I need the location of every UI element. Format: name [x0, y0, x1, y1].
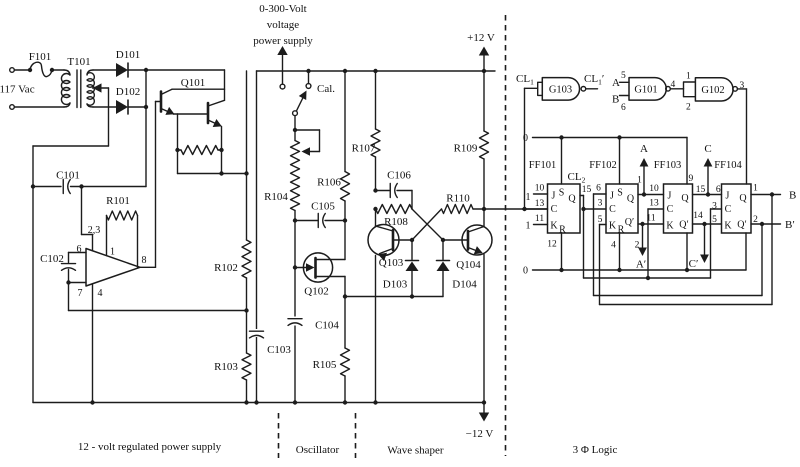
- svg-text:K: K: [550, 221, 558, 232]
- T101 center tap wire: [93, 83, 102, 92]
- node rectifier+ junction: [144, 68, 148, 72]
- fuse F101: [28, 68, 32, 72]
- rail logic0 top: [533, 137, 688, 139]
- svg-text:6: 6: [716, 185, 721, 195]
- FF101 Q out: [580, 195, 584, 197]
- wire emitter1 down: [177, 114, 179, 150]
- FF103 Qp out: [693, 223, 722, 225]
- wire rectifier vertical: [145, 70, 147, 187]
- svg-text:D102: D102: [116, 86, 140, 98]
- wire top rail to Q101: [146, 69, 225, 71]
- svg-text:R104: R104: [264, 191, 288, 203]
- diode D102: [116, 100, 128, 114]
- wire Q101 base link: [174, 113, 209, 115]
- svg-text:9: 9: [689, 174, 694, 184]
- svg-text:Q: Q: [739, 193, 747, 204]
- svg-text:3: 3: [598, 199, 603, 209]
- node R108 left: [373, 207, 377, 211]
- wire R107 bottom: [375, 157, 377, 191]
- svg-text:A: A: [612, 77, 620, 89]
- svg-text:J: J: [726, 191, 730, 202]
- wire G102 out: [737, 88, 746, 90]
- capacitor C104: [287, 317, 302, 326]
- resistor R106: [341, 172, 350, 202]
- svg-text:−12 V: −12 V: [466, 428, 494, 440]
- separator dashed mid: [355, 413, 357, 458]
- svg-text:G101: G101: [634, 85, 657, 96]
- cross diag 1: [412, 209, 443, 240]
- svg-text:10: 10: [535, 184, 545, 194]
- wire R103 top: [246, 311, 248, 353]
- svg-text:Q: Q: [568, 194, 576, 205]
- node C105 left: [293, 218, 297, 222]
- svg-text:Q′: Q′: [737, 220, 746, 231]
- Q104 emitter down: [483, 255, 485, 403]
- svg-text:R106: R106: [317, 177, 341, 189]
- wire R102 top: [246, 174, 248, 241]
- wire C103 branch: [256, 71, 258, 403]
- svg-text:1: 1: [526, 221, 531, 232]
- Q103 collector diag: [376, 226, 394, 231]
- svg-text:R103: R103: [214, 361, 238, 373]
- svg-text:C: C: [667, 204, 674, 215]
- flip-flop FF102 box: [606, 184, 638, 233]
- Q102 gate arrow: [295, 267, 306, 269]
- gate G101 bubble: [666, 87, 671, 92]
- wire pin6: [69, 252, 87, 254]
- wire D101 cathode: [128, 69, 146, 71]
- wire FF103 S: [686, 138, 688, 185]
- transformer T101 core: [76, 70, 78, 108]
- Q104 base wire: [443, 239, 468, 241]
- svg-text:3: 3: [712, 202, 717, 212]
- diode D104: [442, 240, 444, 260]
- wire R106 top: [343, 69, 347, 73]
- wire res stubs: [178, 149, 182, 151]
- node +12 feed: [246, 71, 248, 174]
- wire emitter2 down: [221, 126, 223, 173]
- svg-text:12 - volt regulated power supp: 12 - volt regulated power supply: [78, 441, 222, 453]
- svg-text:0-300-Volt: 0-300-Volt: [259, 3, 306, 15]
- Q102 source lead: [316, 276, 346, 278]
- svg-text:C104: C104: [315, 320, 339, 332]
- svg-text:Wave shaper: Wave shaper: [387, 445, 444, 457]
- svg-text:R109: R109: [454, 143, 478, 155]
- Q103 emitter diag: [380, 249, 394, 254]
- svg-text:K: K: [724, 221, 732, 232]
- svg-text:C′: C′: [689, 258, 699, 270]
- svg-text:C: C: [551, 204, 558, 215]
- svg-text:R: R: [559, 225, 566, 236]
- svg-text:Oscillator: Oscillator: [296, 444, 340, 456]
- svg-text:R102: R102: [214, 262, 238, 274]
- wire A in: [620, 81, 630, 83]
- wire R104 bottom: [294, 211, 296, 221]
- svg-text:B′: B′: [785, 219, 795, 231]
- wire left vertical: [32, 146, 34, 403]
- node D103 bottom: [410, 294, 414, 298]
- svg-text:12: 12: [547, 240, 557, 250]
- wire FF102 S: [617, 135, 621, 139]
- svg-text:voltage: voltage: [267, 19, 299, 31]
- svg-text:1: 1: [637, 176, 642, 186]
- FF101 K stub: [534, 224, 548, 226]
- Q104 emitter diag: [468, 248, 481, 253]
- svg-text:C102: C102: [40, 253, 64, 265]
- gate G101: [629, 78, 666, 101]
- svg-text:R: R: [618, 225, 625, 236]
- wire FF101 S: [559, 135, 563, 139]
- transformer T101 primary: [64, 70, 70, 75]
- svg-text:FF103: FF103: [654, 160, 681, 171]
- FF104 Qp out: [751, 223, 781, 225]
- wire q101 bottom: [177, 150, 179, 174]
- svg-text:C106: C106: [387, 170, 411, 182]
- bus B' to J: [594, 295, 763, 297]
- svg-text:6: 6: [77, 244, 82, 255]
- svg-text:CL1′: CL1′: [584, 73, 604, 87]
- wire R102 bottom: [246, 278, 248, 311]
- svg-text:S: S: [559, 188, 565, 199]
- arrow A: [643, 160, 645, 195]
- Q103 base wire: [393, 239, 412, 241]
- transistor Q102: [303, 253, 332, 282]
- wire D102 anode: [93, 106, 116, 108]
- resistor R108: [376, 205, 413, 214]
- svg-text:7: 7: [78, 288, 83, 299]
- gate G103 bubble: [581, 87, 586, 92]
- terminal 117 Vac bottom: [10, 105, 15, 110]
- svg-text:13: 13: [649, 199, 659, 209]
- resistor R105: [341, 348, 350, 376]
- wire source right: [345, 296, 412, 298]
- diode D103: [411, 240, 413, 260]
- FF101 C wire: [523, 208, 548, 210]
- separator dashed left: [278, 413, 280, 458]
- wire D101 anode: [93, 69, 116, 71]
- ground rail bottom: [33, 402, 484, 404]
- wire R106 bottom: [344, 201, 346, 260]
- FF103 Q out: [693, 194, 722, 196]
- svg-text:4: 4: [98, 288, 103, 299]
- svg-text:C103: C103: [267, 344, 291, 356]
- wire pin4: [92, 284, 94, 403]
- svg-text:11: 11: [535, 214, 544, 224]
- svg-text:Q102: Q102: [304, 286, 328, 298]
- resistor R101: [107, 211, 138, 220]
- resistor R110: [442, 205, 474, 214]
- svg-text:K: K: [666, 221, 674, 232]
- wire pin8 out: [140, 266, 156, 268]
- svg-text:Q′: Q′: [625, 217, 634, 228]
- wire CL1 to logic: [484, 208, 548, 210]
- wire Q101 base down: [155, 102, 157, 268]
- node X right: [441, 238, 445, 242]
- svg-text:1: 1: [110, 247, 115, 258]
- FF101 R wire: [561, 233, 563, 270]
- svg-text:R110: R110: [446, 193, 470, 205]
- FF102 J feedback: [593, 194, 595, 296]
- wire C101 left: [33, 186, 61, 188]
- svg-text:Cal.: Cal.: [317, 83, 335, 95]
- wire R110 right: [473, 208, 484, 210]
- svg-text:10: 10: [649, 184, 659, 194]
- FF104 R wire: [745, 233, 747, 270]
- FF104 Q out: [751, 194, 781, 196]
- svg-text:B: B: [789, 190, 796, 202]
- svg-text:5: 5: [598, 215, 603, 225]
- svg-text:A′: A′: [636, 259, 646, 271]
- gate G103: [542, 78, 579, 101]
- FF102 K feedback: [599, 225, 601, 305]
- wire R101 right: [137, 216, 139, 268]
- gate G102 bubble: [733, 87, 738, 92]
- svg-text:Q: Q: [681, 193, 689, 204]
- FF103 R wire: [686, 233, 688, 270]
- wire C104 line: [294, 221, 296, 403]
- svg-text:1: 1: [753, 184, 758, 194]
- wire R109 bottom: [483, 159, 485, 209]
- gate G103 input stub: [538, 82, 543, 95]
- svg-text:D104: D104: [452, 279, 477, 291]
- resistor Q101 emitter: [181, 146, 218, 155]
- svg-text:G102: G102: [701, 85, 724, 96]
- wire G103 out: [586, 88, 598, 90]
- Q102 drain lead: [316, 259, 346, 261]
- svg-text:Q101: Q101: [181, 77, 205, 89]
- capacitor C101: [62, 180, 64, 194]
- svg-text:3: 3: [740, 81, 745, 91]
- flip-flop FF104 box: [722, 184, 752, 233]
- wire B in: [620, 95, 630, 97]
- wire pin7: [69, 282, 87, 284]
- op-amp U101: [86, 249, 140, 287]
- cross diag 2: [412, 209, 442, 240]
- gate G102 input stub: [684, 82, 696, 97]
- wire R105 top: [344, 297, 346, 349]
- svg-text:2: 2: [635, 241, 640, 251]
- switch terminal left: [280, 84, 285, 89]
- resistor R102: [242, 240, 251, 278]
- +12V rail: [257, 70, 496, 72]
- bus B to K: [600, 304, 773, 306]
- Q103 emitter down: [375, 256, 377, 403]
- terminal 117 Vac top: [10, 68, 15, 73]
- FF103 C wire: [648, 208, 664, 210]
- svg-text:R105: R105: [313, 359, 337, 371]
- transistor Q101 second: [207, 103, 210, 123]
- supply arrow 0-300V: [282, 48, 284, 84]
- svg-text:1: 1: [526, 192, 531, 203]
- capacitor C106: [376, 190, 391, 192]
- FF102 Qp out: [638, 223, 664, 225]
- svg-text:2: 2: [686, 103, 691, 113]
- svg-text:FF104: FF104: [714, 160, 742, 171]
- svg-text:Q103: Q103: [379, 257, 404, 269]
- node C106 left: [373, 188, 377, 192]
- node Q102 source: [343, 294, 347, 298]
- wire pot top: [294, 130, 296, 141]
- svg-text:D101: D101: [116, 49, 140, 61]
- wire D102 cathode: [128, 106, 146, 108]
- svg-text:+12 V: +12 V: [467, 32, 495, 44]
- svg-text:D103: D103: [383, 279, 408, 291]
- +12V arrow: [483, 49, 485, 71]
- node pot top: [293, 128, 297, 132]
- svg-text:3 Φ Logic: 3 Φ Logic: [573, 444, 618, 456]
- svg-text:4: 4: [611, 241, 616, 251]
- arrow Cp: [704, 224, 706, 260]
- svg-text:F101: F101: [29, 51, 52, 63]
- svg-text:T101: T101: [67, 56, 90, 68]
- wire CL1 up: [522, 207, 526, 211]
- wire R109 top: [482, 69, 486, 73]
- bus CL2 feedback: [583, 209, 585, 278]
- node res left: [175, 148, 179, 152]
- svg-text:C: C: [609, 204, 616, 215]
- svg-text:FF102: FF102: [589, 160, 616, 171]
- FF102 R wire: [619, 233, 621, 270]
- resistor R109: [480, 131, 489, 159]
- node X left: [410, 238, 414, 242]
- switch terminal right: [306, 84, 311, 89]
- transistor Q101 second emitter: [208, 120, 221, 126]
- separator dashed logic: [505, 15, 507, 456]
- capacitor C102: [68, 253, 70, 263]
- svg-text:Q: Q: [627, 194, 635, 205]
- svg-text:5: 5: [621, 71, 626, 81]
- svg-text:C: C: [704, 143, 711, 155]
- svg-text:0: 0: [523, 133, 528, 144]
- flip-flop FF103 box: [664, 184, 693, 233]
- transistor Q104: [462, 225, 492, 255]
- arrow C: [707, 160, 709, 195]
- wire Q103 collector: [375, 209, 377, 226]
- svg-text:B: B: [612, 94, 619, 106]
- svg-text:4: 4: [671, 80, 676, 90]
- svg-text:K: K: [609, 221, 617, 232]
- -12V arrow: [483, 403, 485, 420]
- switch arm: [297, 93, 306, 111]
- svg-text:C105: C105: [311, 201, 335, 213]
- svg-text:15: 15: [582, 185, 592, 195]
- rail logic0 bottom: [533, 269, 747, 271]
- wire fuse to T101: [52, 69, 64, 71]
- svg-text:13: 13: [535, 199, 545, 209]
- svg-text:J: J: [552, 191, 556, 202]
- node res right: [219, 148, 223, 152]
- FF101 J stub: [534, 193, 548, 195]
- wire R105 bottom: [344, 376, 346, 403]
- svg-text:A: A: [640, 143, 648, 155]
- svg-text:Q′: Q′: [679, 220, 688, 231]
- gate G102: [695, 78, 733, 101]
- svg-text:15: 15: [696, 185, 706, 195]
- FF102 Q out: [638, 194, 664, 196]
- wire R107 top: [373, 69, 377, 73]
- node C105 right: [343, 218, 347, 222]
- resistor R103: [242, 353, 251, 380]
- transistor Q101 first: [160, 92, 163, 112]
- svg-text:C101: C101: [56, 170, 80, 182]
- svg-text:6: 6: [621, 103, 626, 113]
- svg-text:R107: R107: [352, 143, 376, 155]
- wire R103 bottom: [246, 380, 248, 403]
- wire Q101 collector: [172, 88, 225, 90]
- transformer T101 secondary: [87, 70, 93, 75]
- svg-text:power supply: power supply: [253, 35, 313, 47]
- wire C101 right: [71, 186, 147, 188]
- svg-text:G103: G103: [549, 85, 572, 96]
- capacitor C105: [295, 220, 318, 222]
- FF102 J wire: [594, 193, 607, 195]
- svg-text:14: 14: [693, 211, 703, 221]
- transistor Q103: [368, 225, 399, 256]
- svg-text:J: J: [668, 191, 672, 202]
- svg-text:117 Vac: 117 Vac: [0, 84, 35, 96]
- node C101 left: [31, 184, 35, 188]
- svg-text:2,3: 2,3: [88, 225, 101, 236]
- resistor R107: [371, 129, 380, 157]
- svg-text:C: C: [725, 204, 732, 215]
- Q104 collector diag: [468, 227, 484, 233]
- capacitor C103: [249, 329, 264, 337]
- node pin7: [66, 280, 70, 284]
- pot loop R104: [295, 129, 320, 131]
- svg-text:R108: R108: [384, 216, 408, 228]
- wire R101 left: [106, 216, 108, 256]
- node Q102 gate: [293, 265, 297, 269]
- arrow Ap: [642, 224, 644, 253]
- FF104 C wire: [711, 208, 722, 210]
- svg-text:S: S: [617, 188, 623, 199]
- svg-text:R101: R101: [106, 195, 130, 207]
- switch common: [293, 111, 298, 116]
- wire G101 out: [670, 88, 683, 90]
- flip-flop FF101 box: [548, 184, 581, 233]
- svg-text:J: J: [610, 191, 614, 202]
- svg-text:5: 5: [712, 215, 717, 225]
- svg-text:6: 6: [596, 184, 601, 194]
- wire to pin23: [81, 187, 83, 235]
- diode D101: [116, 63, 128, 77]
- svg-text:1: 1: [686, 72, 691, 82]
- svg-text:FF101: FF101: [529, 160, 556, 171]
- wire pin7 down: [68, 283, 70, 311]
- resistor R104: [291, 141, 300, 211]
- svg-text:2: 2: [753, 215, 758, 225]
- svg-text:8: 8: [142, 255, 147, 266]
- svg-text:Q104: Q104: [456, 259, 481, 271]
- svg-text:0: 0: [523, 266, 528, 277]
- transistor Q101 first emitter: [161, 109, 174, 115]
- FF102 K wire: [600, 224, 607, 226]
